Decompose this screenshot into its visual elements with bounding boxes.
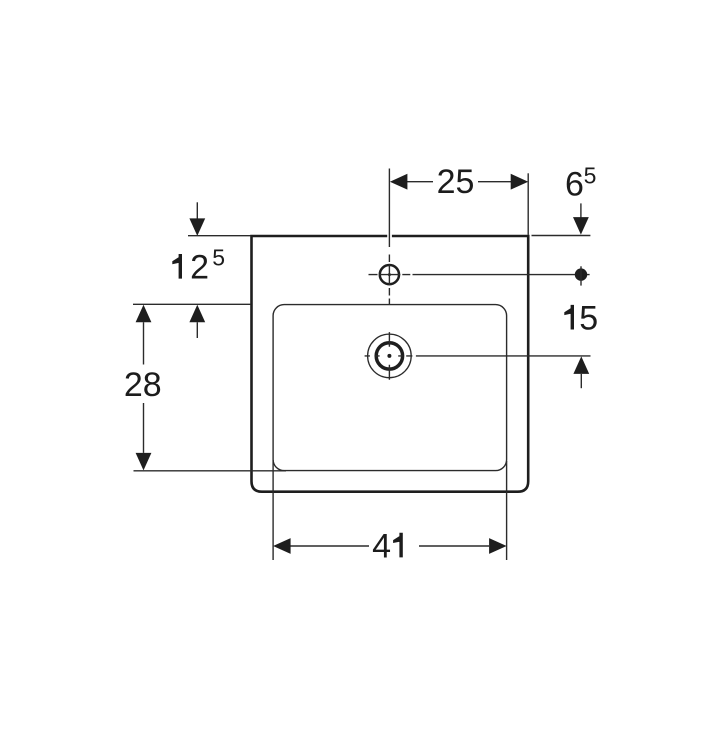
reference line from faucet to right dot [413, 274, 590, 276]
dimension 12.5 up arrow [189, 305, 205, 323]
svg-text:6: 6 [565, 165, 584, 203]
faucet vertical centerline [388, 169, 390, 305]
dimension 15 up arrow [573, 356, 589, 374]
svg-text:4: 4 [372, 527, 391, 565]
dimension 12.5 down arrow tail [196, 202, 198, 219]
reference dot right [575, 268, 587, 280]
dimension 25 right arrow [511, 174, 529, 190]
dimension 41 extension line left [272, 460, 274, 560]
svg-text:25: 25 [437, 163, 475, 201]
dimension 12.5 label [172, 254, 182, 279]
drain outer circle [368, 334, 412, 378]
drain inner circle [376, 343, 402, 369]
reference line left top [188, 235, 251, 237]
dimension 28 down arrow [136, 453, 152, 471]
reference line from drain to right arrow [416, 355, 591, 357]
dimension 28 up arrow [136, 305, 152, 323]
dimension 28 line lower [143, 403, 145, 453]
dimension 41 extension line right [506, 461, 508, 560]
dimension 25 line [406, 181, 511, 183]
dimension 6.5 arrow tail [580, 203, 582, 217]
drain center dot [387, 354, 391, 358]
reference dot tick [580, 266, 582, 285]
svg-text:2: 2 [190, 249, 209, 287]
faucet hole center dot [388, 273, 391, 276]
dimension 12.5 down arrow [189, 218, 205, 236]
dimension 28 line upper [143, 322, 145, 364]
basin outer outline [252, 236, 529, 492]
dimension 25 left arrow [390, 174, 408, 190]
faucet horizontal centerline [369, 274, 411, 276]
dimension 41 line [290, 545, 489, 547]
dimension 6.5 down arrow [573, 217, 589, 235]
dimension 41 left arrow [273, 538, 291, 554]
dimension 41 right arrow [489, 538, 507, 554]
svg-text:5: 5 [579, 300, 598, 338]
basin inner bowl outline [273, 305, 507, 471]
reference line left bottom [134, 470, 287, 472]
dimension 12.5 up arrow tail [196, 322, 198, 338]
reference line left middle [133, 303, 251, 305]
drain horizontal centerline [365, 355, 413, 357]
svg-text:5: 5 [584, 163, 597, 189]
dimension 15 arrow tail [580, 374, 582, 388]
reference line top right [532, 235, 591, 237]
svg-text:5: 5 [212, 244, 225, 270]
faucet hole circle [380, 265, 399, 284]
drain vertical centerline [388, 332, 390, 380]
dimension 15 label [564, 305, 574, 330]
dimension 25 extension line right [527, 173, 529, 235]
svg-text:28: 28 [124, 366, 162, 404]
